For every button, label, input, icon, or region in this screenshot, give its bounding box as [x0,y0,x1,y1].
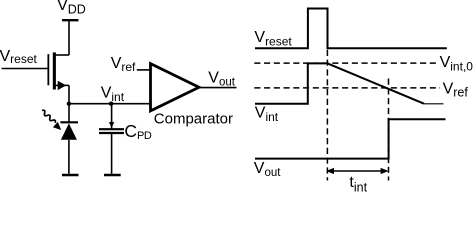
waveform V_reset [255,9,447,49]
wire comparator output [198,87,237,89]
wire V_ref to comparator [137,69,151,71]
dashed vertical at reset falling edge [326,50,328,181]
op-amp U1 comparator triangle [151,64,200,111]
light arrow (photons) [42,110,61,130]
dashed vertical at V_out rising edge [388,79,390,181]
current arrow into capacitor [109,122,114,128]
wire V_DD to drain [68,20,70,55]
svg-text:VDD: VDD [57,0,86,17]
t_int arrow [326,168,389,174]
wire capacitor to ground [111,133,113,174]
waveform V_int final level (thin) [424,103,444,105]
junction dot at capacitor branch [109,102,113,106]
waveform V_out [255,119,446,158]
wire source to node V_int [68,85,70,103]
power rail V_DD [62,19,79,21]
transistor M1 (NMOS reset) [48,52,69,90]
wire node to photodiode [68,104,70,123]
ground (capacitor) [104,174,121,177]
dashed level V_int,0 [254,62,438,64]
dashed level V_ref [254,87,440,89]
waveform V_int [255,63,424,103]
wire photodiode to ground [68,140,70,174]
capacitor C_PD [99,129,124,133]
ground (photodiode) [62,174,79,177]
wire node to capacitor [111,104,113,129]
photodiode D1 [60,122,78,140]
node V_int wire [69,103,152,105]
junction dot at source/node [67,102,71,106]
wire gate [2,68,48,70]
svg-text:Comparator: Comparator [154,110,233,127]
